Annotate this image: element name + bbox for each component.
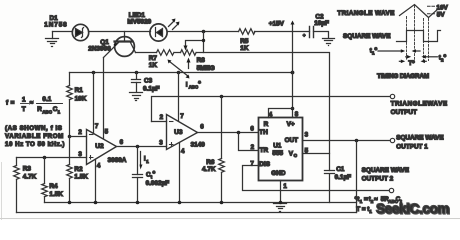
svg-text:6: 6: [200, 124, 204, 131]
pin 4 (U3) wire: [179, 143, 181, 203]
timing diagram: square waveform: [397, 31, 441, 42]
label Ct*: [146, 171, 156, 180]
svg-text:VARIABLE FROM: VARIABLE FROM: [5, 133, 64, 140]
svg-text:1.5K: 1.5K: [49, 191, 63, 198]
annotation: I1 current arrow: [140, 152, 143, 170]
formula: *t1 = t2 = 5RABC Ct: [355, 196, 403, 204]
svg-text:5: 5: [305, 148, 309, 155]
timing diagram: t1 arrow: [378, 49, 420, 53]
label t1*: [370, 47, 378, 56]
wire: R8 right to Vc corner (down to pin5 of U1): [197, 53, 330, 154]
svg-text:=: =: [364, 196, 368, 203]
wire: U2 pin3 input line (R3 corner to U2): [17, 157, 87, 159]
pin 7 (U3) wire: [178, 73, 180, 121]
svg-text:4: 4: [97, 163, 101, 170]
node: C3 junction: [135, 71, 139, 75]
node: TH/TR junction: [237, 131, 241, 135]
ground (C3): [130, 93, 143, 101]
label Vc: [289, 151, 298, 159]
node: Ct on rail: [136, 201, 140, 205]
pin 4 (U2) wire: [95, 160, 97, 203]
wire: ground to D1: [53, 31, 73, 33]
terminal: triangle wave output: [390, 94, 394, 98]
potentiometer R8 element: [181, 50, 197, 56]
svg-text:OUTPUT 1: OUTPUT 1: [396, 144, 428, 151]
svg-text:R7: R7: [149, 55, 158, 62]
resistor R6: [219, 97, 225, 203]
svg-text:*: *: [375, 47, 378, 54]
svg-text:TR: TR: [260, 147, 269, 154]
svg-text:2N3906: 2N3906: [88, 46, 111, 53]
svg-text:4: 4: [181, 148, 185, 155]
svg-text:T*: T*: [408, 60, 415, 67]
label I1: [144, 156, 149, 164]
svg-text:1: 1: [360, 199, 363, 204]
svg-text:SQUARE WAVE: SQUARE WAVE: [362, 167, 410, 174]
ground (555): [274, 204, 287, 212]
node: integrator node (Ct): [136, 145, 140, 149]
svg-text:T: T: [22, 106, 26, 113]
op-amp U2 3080A: [87, 130, 117, 165]
resistor R4: [42, 158, 48, 203]
node: R8 top junction on +rail: [202, 30, 206, 34]
resistor R5: [239, 29, 256, 35]
transistor Q1 2N3906: [104, 32, 136, 58]
LED emission arrows: [169, 19, 180, 30]
annotation: IABC up arrow at R8: [187, 58, 191, 69]
svg-text:7: 7: [180, 113, 184, 120]
svg-text:4.7K: 4.7K: [23, 174, 37, 181]
svg-text:1: 1: [369, 209, 372, 214]
wire: U3 output to 555 TH: [198, 132, 259, 134]
svg-text:1: 1: [146, 159, 149, 164]
svg-text:U3: U3: [174, 129, 183, 136]
svg-text:3140: 3140: [191, 142, 206, 149]
node: output feedback junction: [355, 139, 359, 143]
svg-text:T = t: T = t: [356, 206, 369, 213]
resistor R2: [67, 137, 73, 203]
timing diagram: triangle waveform: [400, 5, 439, 18]
svg-text:10V: 10V: [436, 4, 448, 11]
wire: junction down to R7/R8 line: [203, 32, 205, 53]
capacitor C2 (polarized): [303, 27, 314, 40]
svg-text:555: 555: [272, 150, 283, 157]
svg-text:R1: R1: [75, 87, 84, 94]
svg-text:OUT: OUT: [285, 137, 299, 144]
timing diagram: 5V dashed level: [428, 13, 436, 15]
svg-text:MV5020: MV5020: [127, 19, 151, 26]
IC U1 555: [259, 118, 303, 181]
svg-text:SQUARE WAVE: SQUARE WAVE: [343, 33, 391, 40]
node: R2 on rail: [68, 201, 72, 205]
svg-text:R8: R8: [197, 57, 206, 64]
svg-text:ABC: ABC: [42, 109, 52, 114]
label t2*: [439, 54, 447, 63]
wire: feedback vertical down to lower rail: [356, 141, 358, 213]
svg-text:1: 1: [22, 96, 26, 103]
svg-text:TRIANGLE WAVE: TRIANGLE WAVE: [337, 10, 395, 17]
node: U3 pin4 on rail: [178, 201, 182, 205]
svg-text:TIMING DIAGRAM: TIMING DIAGRAM: [377, 73, 429, 80]
svg-text:*: *: [153, 171, 156, 178]
svg-text:U2: U2: [95, 143, 104, 150]
svg-text:0.1µF: 0.1µF: [143, 86, 160, 93]
LED1 MV5020 (circled): [150, 24, 167, 41]
svg-text:1K: 1K: [240, 45, 249, 52]
resistor R7: [157, 50, 174, 56]
svg-text:*t: *t: [355, 196, 359, 203]
svg-text:1: 1: [58, 109, 61, 114]
node: R4 tap: [43, 156, 47, 160]
ground (C2): [323, 39, 335, 46]
wire: tap to U2 pin 2: [70, 136, 87, 138]
svg-text:*: *: [198, 81, 201, 88]
wire: DIS to square wave output 2: [243, 166, 390, 191]
watermark SeekIC.com: [376, 201, 450, 217]
svg-text:(AS SHOWN, f IS: (AS SHOWN, f IS: [5, 125, 62, 132]
wire: ground rail: [45, 202, 357, 204]
svg-text:+: +: [303, 34, 306, 39]
svg-text:4: 4: [269, 112, 273, 119]
svg-text:C1: C1: [336, 166, 345, 173]
node: 555 GND on rail: [279, 201, 283, 205]
svg-text:=: =: [11, 100, 15, 107]
svg-text:0.1µF: 0.1µF: [335, 174, 352, 181]
node: R6 on rail: [220, 201, 224, 205]
svg-text:f: f: [6, 100, 9, 107]
svg-text:10 Hz TO 50 kHz.): 10 Hz TO 50 kHz.): [5, 141, 65, 148]
svg-text:6: 6: [120, 139, 124, 146]
svg-text:2: 2: [251, 144, 255, 151]
svg-text:C: C: [294, 153, 298, 158]
svg-text:SQUARE WAVE: SQUARE WAVE: [396, 135, 444, 142]
wire: U2 output to U3 pin 3: [117, 146, 167, 148]
svg-text:≈: ≈: [30, 100, 34, 107]
svg-text:GND: GND: [271, 170, 286, 177]
svg-text:6: 6: [250, 125, 254, 132]
svg-text:R3: R3: [23, 166, 32, 173]
svg-text:*: *: [444, 54, 447, 61]
resistor R1 (on +15V to divider): [67, 73, 73, 137]
wire: junction down to TR: [239, 133, 259, 151]
svg-text:R: R: [264, 121, 269, 128]
potentiometer R8 wiper bracket: [184, 39, 206, 51]
wire: C2 to ground: [314, 32, 329, 38]
svg-text:1K: 1K: [149, 62, 158, 69]
terminal: square wave output 2: [389, 188, 393, 192]
capacitor C1: [325, 171, 335, 174]
svg-text:C3: C3: [144, 78, 153, 85]
node: U2 pin7 junction: [92, 71, 96, 75]
svg-text:R6: R6: [206, 159, 215, 166]
capacitor C3: [132, 73, 141, 92]
label IABC*: [186, 81, 201, 90]
svg-text:7: 7: [250, 161, 254, 168]
wire: lower feedback rail (R3 to output): [17, 212, 357, 214]
svg-text:TH: TH: [259, 129, 268, 136]
svg-text:V+: V+: [287, 121, 295, 128]
svg-text:R2: R2: [74, 166, 83, 173]
annotation: IABC adjust diagonal arrow: [168, 60, 190, 79]
svg-text:1: 1: [283, 183, 287, 190]
wire: LED1 to R8-top junction to R5: [168, 31, 239, 33]
svg-text:8: 8: [295, 111, 299, 118]
svg-text:U1: U1: [273, 143, 282, 150]
node: divider tap to U2 pin 2: [68, 135, 72, 139]
svg-text:4.7K: 4.7K: [202, 166, 216, 173]
svg-text:R4: R4: [49, 183, 58, 190]
timing diagram: t2 arrows: [406, 55, 438, 59]
node: U2 pin4 on rail: [94, 201, 98, 205]
node: U3 pin7 junction: [177, 71, 181, 75]
svg-text:SeekiC.com: SeekiC.com: [376, 201, 449, 216]
wire: R5 to +15V node to C2: [255, 31, 310, 33]
wire: 555 OUT to square wave output 1: [303, 140, 390, 142]
pin 7 (U2) wire: [93, 73, 95, 134]
svg-text:10µF: 10µF: [314, 20, 329, 27]
wire: U3 pin 2 stub: [152, 121, 167, 123]
wire: node down to Ct: [137, 147, 139, 175]
terminal: square wave output 1: [390, 138, 394, 142]
wire: +15V vertical down to 555 pin 8: [292, 32, 294, 118]
scan border artifacts: [1, 163, 3, 220]
svg-text:0.1: 0.1: [42, 96, 51, 103]
timing diagram: dashed verticals: [407, 6, 429, 61]
svg-text:OUTPUT 2: OUTPUT 2: [362, 175, 394, 182]
svg-text:1N758: 1N758: [44, 22, 67, 29]
timing diagram: 10V dashed level: [428, 5, 436, 7]
node: R6 top junction: [220, 95, 224, 99]
wire: 555 GND pin 1 down: [280, 181, 282, 203]
formula: f = 1/T = 0.1/RABC C1: [6, 96, 63, 115]
ground (D1, left): [46, 32, 59, 47]
resistor R3: [14, 158, 20, 213]
svg-text:DIS: DIS: [259, 161, 270, 168]
wire: R7 to R8: [175, 52, 181, 54]
svg-text:10K: 10K: [75, 95, 87, 102]
node: +15V vertical junction: [291, 71, 295, 75]
svg-text:0.002µF: 0.002µF: [146, 180, 170, 187]
svg-text:I: I: [186, 81, 188, 88]
formula: T = t1: [356, 206, 372, 214]
wire: R7/R8 line from Q1 collector: [136, 52, 157, 54]
svg-text:3: 3: [78, 151, 82, 158]
timing diagram: T arrows: [399, 60, 426, 64]
svg-text:5: 5: [105, 128, 109, 135]
svg-text:1.5K: 1.5K: [74, 174, 88, 181]
svg-text:2: 2: [160, 114, 164, 121]
+15V supply arrow: [291, 21, 295, 32]
diode D1 (zener, circled): [72, 24, 88, 40]
svg-text:TRIANGLEWAVE: TRIANGLEWAVE: [391, 101, 448, 108]
svg-text:3080A: 3080A: [108, 157, 127, 164]
svg-text:+15V: +15V: [269, 21, 285, 28]
svg-text:3: 3: [159, 139, 163, 146]
svg-text:7: 7: [95, 123, 99, 130]
wire: +15V mid rail (R1 corner to +15V vertical): [70, 72, 293, 74]
svg-text:3: 3: [305, 132, 309, 139]
svg-text:5MEG: 5MEG: [197, 65, 215, 72]
op-amp U3 3140: [167, 115, 198, 150]
node: pin4/pin8 tee: [291, 107, 295, 111]
capacitor Ct: [133, 175, 143, 203]
wire: triangle-out / U3 pin2 feedback line: [152, 97, 391, 122]
svg-text:2: 2: [78, 129, 82, 136]
wire: pin 4 loop to +15V: [269, 109, 293, 118]
wire: C1 leads (Vc bypass vertical): [329, 154, 331, 203]
svg-text:OUTPUT: OUTPUT: [391, 109, 417, 116]
wire: D1 to LED1 (top rail): [89, 31, 151, 33]
wire: Q1 emitter to U2 pin 5: [103, 58, 105, 139]
svg-text:5V: 5V: [437, 12, 446, 19]
